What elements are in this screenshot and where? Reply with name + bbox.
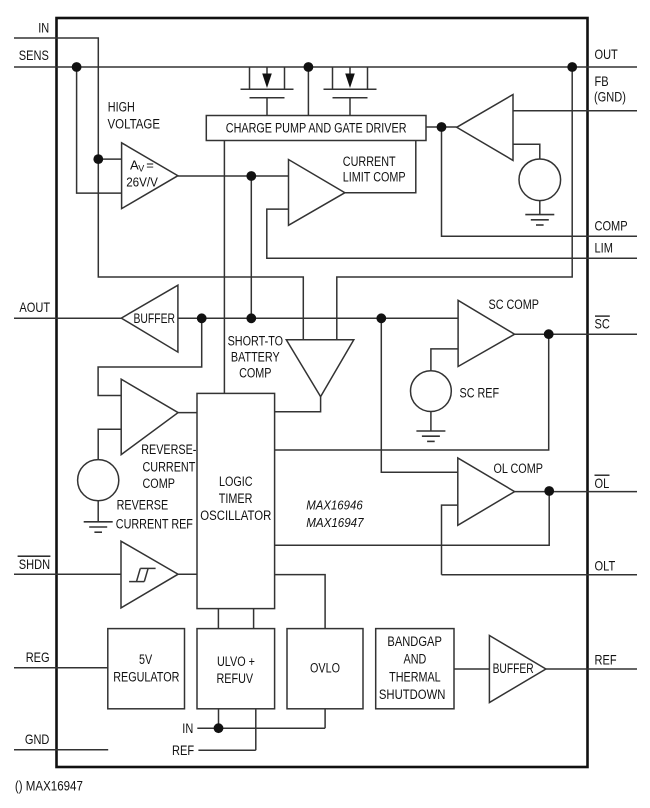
svg-text:AND: AND	[404, 652, 427, 668]
svg-text:26V/V: 26V/V	[126, 175, 158, 190]
svg-text:SHUTDOWN: SHUTDOWN	[379, 687, 446, 703]
svg-text:OSCILLATOR: OSCILLATOR	[200, 508, 271, 524]
svg-text:=: =	[146, 158, 154, 173]
svg-text:V: V	[138, 164, 144, 174]
svg-text:() MAX16947: () MAX16947	[15, 779, 83, 795]
svg-text:COMP: COMP	[143, 476, 175, 492]
svg-text:REVERSE: REVERSE	[117, 497, 169, 513]
svg-text:BATTERY: BATTERY	[231, 350, 280, 366]
svg-text:VOLTAGE: VOLTAGE	[108, 117, 161, 133]
svg-text:LOGIC: LOGIC	[219, 474, 253, 490]
svg-text:HIGH: HIGH	[108, 99, 135, 115]
svg-text:BUFFER: BUFFER	[134, 311, 176, 327]
svg-text:LIMIT COMP: LIMIT COMP	[343, 170, 406, 186]
svg-text:ULVO +: ULVO +	[217, 654, 255, 670]
svg-text:MAX16947: MAX16947	[306, 516, 364, 530]
svg-text:OUT: OUT	[595, 47, 619, 62]
svg-text:REF: REF	[595, 653, 617, 668]
svg-text:OL COMP: OL COMP	[494, 461, 543, 477]
svg-text:BUFFER: BUFFER	[493, 661, 534, 677]
svg-text:REG: REG	[26, 650, 50, 665]
svg-text:REFUV: REFUV	[217, 671, 254, 687]
svg-text:CURRENT REF: CURRENT REF	[116, 516, 193, 532]
svg-text:5V: 5V	[139, 652, 153, 668]
svg-text:REVERSE-: REVERSE-	[141, 442, 196, 458]
svg-text:TIMER: TIMER	[219, 491, 253, 507]
svg-text:OLT: OLT	[595, 559, 616, 574]
svg-text:SHDN: SHDN	[19, 557, 50, 572]
svg-text:IN: IN	[38, 20, 49, 35]
svg-text:REGULATOR: REGULATOR	[113, 669, 179, 685]
svg-text:CURRENT: CURRENT	[143, 460, 196, 476]
svg-text:THERMAL: THERMAL	[389, 669, 441, 685]
svg-text:GND: GND	[25, 732, 50, 747]
svg-text:CHARGE PUMP AND GATE DRIVER: CHARGE PUMP AND GATE DRIVER	[226, 121, 407, 137]
svg-text:AOUT: AOUT	[19, 300, 50, 315]
svg-text:SENS: SENS	[19, 48, 49, 63]
svg-text:REF: REF	[172, 743, 194, 758]
svg-text:LIM: LIM	[595, 240, 613, 255]
svg-text:(GND): (GND)	[594, 89, 626, 104]
svg-text:OL: OL	[595, 476, 610, 491]
svg-text:SC: SC	[595, 317, 610, 332]
svg-text:COMP: COMP	[595, 219, 628, 234]
svg-text:SC REF: SC REF	[460, 386, 500, 402]
svg-text:SC COMP: SC COMP	[489, 297, 539, 313]
svg-text:CURRENT: CURRENT	[343, 154, 396, 170]
svg-text:IN: IN	[182, 721, 193, 736]
svg-text:MAX16946: MAX16946	[306, 498, 363, 512]
svg-text:OVLO: OVLO	[310, 660, 340, 676]
svg-text:COMP: COMP	[239, 366, 271, 382]
svg-text:BANDGAP: BANDGAP	[387, 634, 442, 650]
svg-text:SHORT-TO: SHORT-TO	[228, 334, 283, 350]
svg-text:FB: FB	[595, 74, 609, 89]
